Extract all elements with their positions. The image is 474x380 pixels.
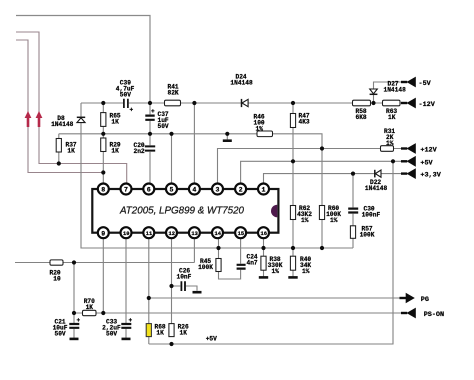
svg-text:1K: 1K (86, 304, 94, 311)
wire R68 column PG to +5V bottom (148, 298, 150, 344)
ground at C21 (70, 338, 79, 341)
svg-text:11: 11 (146, 231, 152, 237)
svg-text:+5V: +5V (420, 159, 433, 167)
node pin5 (169, 132, 173, 136)
wire main top rail y=103 (81, 102, 403, 104)
node R62/R40 (291, 246, 295, 250)
node ground stub R46 (225, 132, 229, 136)
node pin4/R41 (192, 101, 196, 105)
pin 4 (189, 184, 200, 195)
svg-text:+3,3V: +3,3V (420, 172, 441, 180)
node R60 bottom (320, 246, 324, 250)
wire R38 to ground (263, 248, 265, 277)
pin 1 (258, 184, 269, 195)
svg-text:7: 7 (124, 187, 128, 194)
svg-text:1%: 1% (302, 268, 310, 275)
svg-text:+: + (151, 108, 155, 115)
svg-text:4n7: 4n7 (247, 260, 258, 267)
resistor R68 yellow (146, 324, 151, 337)
resistor R46 (257, 131, 273, 137)
svg-text:16: 16 (261, 231, 267, 237)
svg-text:50V: 50V (106, 331, 117, 338)
svg-text:1K: 1K (111, 148, 119, 155)
wire C37/C20 column to pin 6 (149, 103, 151, 184)
connector arrow +12V (401, 147, 407, 149)
ground at C33 (122, 338, 131, 341)
wire pin 9 drop (102, 239, 104, 314)
svg-text:6: 6 (147, 187, 151, 194)
resistor R38 (261, 256, 266, 270)
resistor R47 (290, 114, 295, 128)
svg-text:1%: 1% (256, 125, 264, 132)
pin 10 (121, 227, 132, 238)
svg-text:15: 15 (238, 231, 244, 237)
svg-text:1N4148: 1N4148 (51, 121, 74, 128)
resistor R31 (381, 146, 394, 152)
svg-text:50V: 50V (55, 331, 66, 338)
pin 13 (189, 227, 200, 238)
resistor R29 (101, 138, 106, 152)
wire mid rail y=134 through R46 to +12V rail (59, 134, 322, 149)
diode D22 (374, 170, 376, 178)
svg-text:1N4148: 1N4148 (365, 185, 388, 192)
pin 16 (258, 227, 269, 238)
svg-text:100K: 100K (198, 264, 213, 271)
svg-text:1K: 1K (156, 330, 164, 337)
wire mauve B to pin 8 (16, 40, 103, 173)
connector arrow +3,3V (401, 172, 407, 174)
resistor R65 (101, 113, 106, 127)
svg-text:1K: 1K (388, 114, 396, 121)
capacitor C26 (181, 281, 185, 291)
ground at C26 (193, 291, 202, 294)
svg-text:9: 9 (101, 230, 105, 237)
connector arrow -5V (401, 81, 407, 83)
svg-text:AT2005, LPG899 & WT7520: AT2005, LPG899 & WT7520 (119, 206, 244, 217)
node +5V riser (391, 159, 395, 163)
node pin11/R68 on PG (147, 296, 151, 300)
resistor R70 (83, 310, 97, 315)
node R29 bottom pin8 (101, 170, 105, 174)
svg-text:100nF: 100nF (362, 212, 381, 219)
diode D27 (370, 93, 378, 95)
diode D8 (77, 116, 85, 118)
capacitor C24 (237, 265, 246, 269)
svg-text:2: 2 (239, 187, 243, 194)
wire ground stub at R46 left (226, 134, 228, 140)
node R47 bottom on +5V (291, 159, 295, 163)
svg-text:+12V: +12V (420, 147, 437, 155)
wire pin 8 stub (102, 173, 104, 185)
svg-text:4K3: 4K3 (299, 119, 310, 126)
wire pin 12 drop to R26 (171, 239, 173, 325)
svg-text:1%: 1% (272, 268, 280, 275)
node R37 bottom (57, 161, 61, 165)
wire +12V rail and pin 3 stub (218, 149, 404, 185)
node C37 top (148, 101, 152, 105)
wire pin 13 drop (193, 239, 195, 263)
svg-text:1: 1 (262, 187, 266, 194)
pin 2 (235, 184, 246, 195)
ground at R40 (288, 276, 297, 279)
resistor R40 (290, 256, 295, 270)
svg-text:+: + (130, 107, 134, 114)
svg-text:PS-ON: PS-ON (424, 311, 444, 319)
svg-text:+: + (77, 317, 81, 324)
pin 5 (166, 184, 177, 195)
resistor R20 (50, 260, 63, 265)
svg-text:1%: 1% (330, 217, 338, 224)
resistor R41 (165, 100, 181, 106)
node R70 left / C21 (72, 311, 76, 315)
resistor R57 (350, 226, 355, 239)
resistor R63 (383, 100, 401, 106)
node R47 top (291, 101, 295, 105)
pin 8 (98, 184, 109, 195)
wire R60 column x=322 (321, 149, 323, 249)
wire R65/R29 column (102, 103, 104, 173)
capacitor C39 (124, 99, 128, 108)
wire R37 column (58, 134, 60, 164)
diode D24 (241, 99, 243, 107)
connector arrow PG (output) (400, 297, 407, 299)
svg-text:+: + (129, 317, 133, 324)
svg-text:14: 14 (215, 231, 222, 237)
wire pin 5 drop (171, 134, 173, 184)
wire R47/R62/R40 column x=293 (292, 103, 294, 277)
resistor R62 (290, 206, 295, 220)
wire pin 10 drop to C33 (125, 239, 127, 339)
pin 3 (212, 184, 223, 195)
node pin9 on PS-ON (101, 311, 105, 315)
wire top-left gray feed to C37 node (16, 16, 150, 104)
capacitor C33 electrolytic (121, 324, 131, 328)
capacitor C21 electrolytic (69, 324, 79, 328)
svg-text:6K8: 6K8 (356, 114, 367, 121)
svg-text:13: 13 (191, 231, 197, 237)
pin 15 (235, 227, 246, 238)
pin 6 (143, 184, 154, 195)
resistor R58 (353, 100, 371, 106)
svg-text:100K: 100K (360, 232, 375, 239)
svg-text:10: 10 (53, 276, 61, 283)
svg-text:1K: 1K (111, 119, 119, 126)
node R20 junction (72, 260, 76, 264)
svg-text:4: 4 (192, 187, 196, 194)
svg-text:3: 3 (216, 187, 220, 194)
node pin12/C26 (169, 284, 173, 288)
IC U1 AT2005 body (92, 189, 278, 233)
capacitor C37 (145, 116, 154, 120)
connector arrow -12V (401, 102, 407, 104)
svg-text:12: 12 (169, 231, 175, 237)
resistor R45 (216, 259, 221, 272)
pin 12 (166, 227, 177, 238)
svg-text:50V: 50V (158, 123, 169, 130)
node C30 top on +3.3V (351, 172, 355, 176)
node pin16/R38 (261, 246, 265, 250)
ground at R46 left (223, 139, 232, 142)
svg-text:1%: 1% (301, 217, 309, 224)
wire pin 4 drop (193, 103, 195, 184)
pin 11 (143, 227, 154, 238)
svg-text:50V: 50V (120, 92, 131, 99)
wire C26 branch to ground (172, 286, 198, 291)
wire R20 rail y=262.5 (15, 262, 194, 264)
wire PS-ON rail y=313 through R70 (74, 312, 403, 314)
svg-text:1K: 1K (67, 148, 75, 155)
resistor R26 (169, 324, 174, 337)
svg-text:-5V: -5V (419, 80, 432, 88)
resistor R37 (56, 139, 61, 153)
wire PG rail y=298 (149, 297, 403, 299)
svg-text:2n2: 2n2 (134, 148, 145, 155)
capacitor C30 (348, 209, 358, 213)
svg-text:1N4148: 1N4148 (384, 87, 407, 94)
pin 14 (212, 227, 223, 238)
node D27 (371, 101, 375, 105)
svg-text:1N4148: 1N4148 (230, 80, 253, 87)
svg-text:PG: PG (421, 296, 429, 304)
IC notch purple (271, 205, 277, 218)
resistor R60 (319, 206, 324, 220)
svg-text:-12V: -12V (419, 101, 436, 109)
node R26 bottom (169, 342, 173, 346)
pin 9 (98, 227, 109, 238)
connector arrow +5V (401, 160, 407, 162)
svg-text:10: 10 (123, 231, 129, 237)
svg-text:82K: 82K (168, 90, 179, 97)
wire mauve A to pin 7 (16, 32, 127, 184)
node C37 bottom (148, 132, 152, 136)
wire +5V rail and pin 2 stub (241, 161, 403, 184)
wire C30/R57 column x=353 (352, 174, 354, 248)
node R65 bottom (101, 132, 105, 136)
wire +3.3V rail and pin 1 stub (264, 174, 404, 184)
svg-text:5: 5 (170, 187, 174, 194)
wire pin 11 drop to PG node (148, 239, 150, 299)
capacitor C20 (145, 146, 155, 150)
wire R20 junction down to C21 and ground (73, 263, 75, 339)
wire +5V bottom rail and right riser (149, 161, 393, 344)
svg-text:8: 8 (101, 187, 105, 194)
wire pin 15 / C24 / R45 / pin 14 loop (219, 239, 241, 280)
node pin14/R45 (216, 246, 220, 250)
red arrow on wire A (36, 111, 43, 127)
red arrow on wire B (25, 111, 32, 127)
pin 7 (121, 184, 132, 195)
ground at R38 (259, 276, 268, 279)
svg-text:1K: 1K (180, 330, 188, 337)
node R65 top (101, 101, 105, 105)
wire D27 branch to -5V (374, 82, 404, 103)
wire D8 branch down and bottom net y=248 (81, 103, 353, 248)
connector arrow PS-ON (401, 312, 407, 314)
svg-text:10nF: 10nF (177, 274, 192, 281)
node R46/R60 on +12V (320, 146, 324, 150)
svg-text:1%: 1% (386, 140, 394, 147)
svg-text:+5V: +5V (206, 335, 217, 342)
wire pin 16 drop (263, 239, 265, 249)
